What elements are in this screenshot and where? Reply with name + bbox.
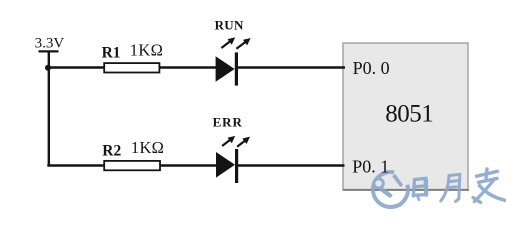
wire: junction to R1 <box>47 66 105 68</box>
LED D2 cathode bar <box>235 149 238 183</box>
char 日 <box>413 178 426 200</box>
svg-text:1KΩ: 1KΩ <box>130 40 163 59</box>
svg-text:3.3V: 3.3V <box>35 35 65 51</box>
wire: R1 to LED D1 <box>159 66 216 68</box>
IC U1 8051 body <box>343 43 468 190</box>
char 月 <box>441 174 460 201</box>
char 辰 <box>473 169 506 203</box>
LED D2 light arrow 2 <box>237 137 250 147</box>
resistor R1 <box>104 63 159 72</box>
svg-text:P0. 0: P0. 0 <box>353 58 390 78</box>
LED D1 cathode bar <box>235 52 238 85</box>
svg-text:P0. 1: P0. 1 <box>352 157 389 177</box>
svg-text:8051: 8051 <box>385 100 433 127</box>
svg-text:R1: R1 <box>102 45 121 62</box>
LED D1 (RUN) anode triangle <box>216 56 235 82</box>
junction node at top row <box>45 65 51 71</box>
wire: R2 to LED D2 <box>160 164 216 166</box>
svg-text:1KΩ: 1KΩ <box>131 138 164 157</box>
LED D2 light arrow 1 <box>222 136 235 146</box>
wire: left rail corner to R2 <box>47 164 105 166</box>
svg-text:RUN: RUN <box>215 18 244 33</box>
wire: LED D2 cathode to P0.1 <box>237 164 344 166</box>
svg-text:ERR: ERR <box>213 115 243 130</box>
watermark logo and characters <box>373 169 506 207</box>
power rail 3.3V bar <box>39 50 59 52</box>
resistor R2 <box>104 161 160 170</box>
svg-text:R2: R2 <box>102 142 121 159</box>
wire: LED D1 cathode to P0.0 <box>237 66 345 68</box>
LED D2 (ERR) anode triangle <box>216 152 235 178</box>
LED D1 light arrow 2 <box>236 38 250 49</box>
LED D1 light arrow 1 <box>221 37 235 48</box>
wire: 3.3V rail down left side to bottom row <box>48 51 50 165</box>
